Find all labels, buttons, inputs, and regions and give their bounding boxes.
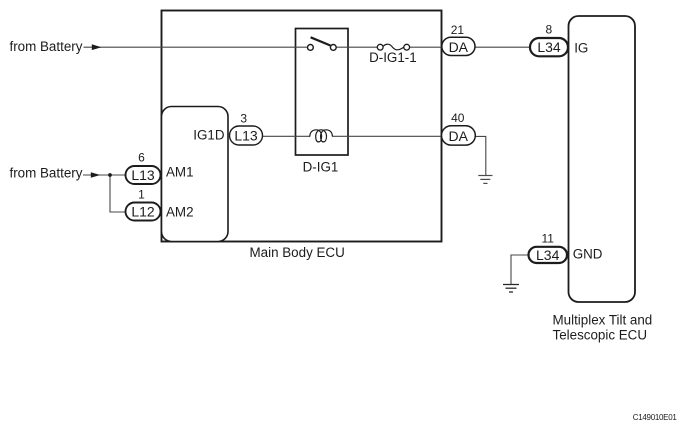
oval DA pin40: [442, 126, 476, 145]
oval L12 pin1: [126, 203, 161, 221]
fuse D-IG1-1: [377, 44, 383, 50]
oval L13 pin3: [230, 126, 263, 145]
svg-text:GND: GND: [573, 247, 603, 262]
svg-text:6: 6: [138, 151, 145, 165]
relay coil: [310, 130, 333, 142]
svg-text:3: 3: [240, 112, 247, 126]
svg-text:1: 1: [138, 188, 145, 202]
svg-text:D-IG1-1: D-IG1-1: [369, 50, 417, 65]
junction node: [108, 173, 112, 177]
svg-text:11: 11: [541, 232, 554, 246]
arrow from Battery (lower): [91, 172, 101, 178]
Main Body ECU box: [162, 11, 442, 242]
wire: L34 pin11 to ground: [511, 255, 529, 284]
svg-text:AM1: AM1: [166, 165, 194, 180]
connector block IG1D/AM1/AM2 (inner rounded rect): [162, 107, 229, 242]
wire: coil to DA pin40: [333, 135, 442, 137]
relay switch contacts: [308, 45, 314, 51]
arrow from Battery (top): [92, 44, 102, 50]
svg-text:Telescopic ECU: Telescopic ECU: [553, 327, 648, 342]
oval DA pin21: [442, 37, 475, 55]
wire: DA pin40 to ground: [476, 136, 486, 175]
ground (below L34 pin11): [503, 285, 519, 293]
svg-text:DA: DA: [449, 39, 469, 55]
svg-text:8: 8: [545, 23, 552, 37]
svg-text:C149010E01: C149010E01: [633, 413, 678, 422]
svg-text:Main Body ECU: Main Body ECU: [250, 245, 345, 260]
oval L34 pin8: [530, 38, 568, 56]
wire: fuse to DA pin21: [410, 46, 442, 48]
wire: DA pin21 to L34 pin8: [476, 46, 531, 48]
wire: L13 pin3 to coil: [261, 135, 310, 137]
oval L34 pin11: [529, 247, 568, 263]
svg-text:L34: L34: [536, 247, 560, 263]
relay switch blade: [311, 37, 331, 45]
svg-text:DA: DA: [448, 128, 468, 144]
svg-text:AM2: AM2: [166, 204, 194, 219]
svg-text:40: 40: [451, 111, 465, 125]
svg-text:IG: IG: [574, 40, 588, 55]
svg-text:D-IG1: D-IG1: [303, 159, 339, 174]
svg-text:L13: L13: [131, 167, 155, 183]
wire: battery to AM1: [83, 174, 126, 176]
wire: junction to AM2: [110, 175, 126, 212]
oval L13 pin6: [126, 166, 161, 184]
svg-text:21: 21: [451, 23, 465, 37]
svg-text:IG1D: IG1D: [193, 128, 225, 143]
svg-text:L13: L13: [234, 128, 258, 144]
svg-text:L34: L34: [537, 39, 561, 55]
Multiplex Tilt and Telescopic ECU box: [569, 16, 636, 302]
relay D-IG1 box: [296, 29, 349, 156]
svg-text:L12: L12: [131, 204, 155, 220]
wire: switch to fuse: [336, 46, 377, 48]
wire: top battery feed to switch: [84, 46, 308, 48]
svg-text:from Battery: from Battery: [10, 39, 83, 54]
svg-text:Multiplex Tilt and: Multiplex Tilt and: [553, 312, 653, 327]
svg-text:from Battery: from Battery: [10, 165, 83, 180]
ground (below DA pin40): [478, 176, 492, 184]
